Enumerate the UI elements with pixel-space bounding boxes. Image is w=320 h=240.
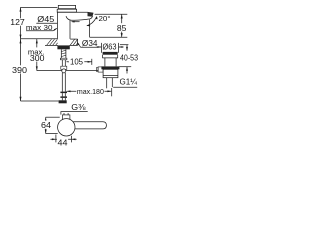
spout underside: [66, 16, 90, 20]
dimension 85 line: [121, 14, 123, 37]
dim 64 line: [45, 117, 47, 133]
dimension max300 line: [36, 39, 38, 71]
dim 64 extension lines: [46, 116, 60, 118]
plan view lever bar: [72, 122, 106, 129]
20deg arc arrowheads: [86, 25, 90, 27]
flow arrow head: [71, 21, 75, 23]
dimension 127 line: [20, 7, 22, 38]
washer: [60, 58, 67, 60]
dim 40-53 top ext: [120, 44, 128, 46]
deck bottom line right: [70, 44, 78, 46]
O34 leader arrow: [77, 42, 79, 46]
faucet handle: [58, 5, 75, 8]
control tube B: [111, 78, 113, 87]
control tube A: [106, 78, 108, 89]
svg-text:40-53: 40-53: [120, 53, 138, 62]
G3/8 underline: [61, 112, 88, 115]
hose connector: [61, 66, 67, 69]
44 arrows: [52, 138, 56, 140]
deck hatching: [47, 39, 78, 45]
deck top line right: [70, 38, 77, 40]
dim max180 line: [67, 90, 112, 92]
text 64: [40, 120, 51, 130]
390 arrows: [20, 39, 22, 43]
text max300: [27, 47, 46, 63]
svg-text:44: 44: [58, 137, 68, 147]
deck-top extension line: [21, 38, 58, 40]
svg-text:Ø34: Ø34: [82, 39, 98, 48]
max300 arrows: [36, 39, 38, 43]
85 arrows: [121, 14, 123, 18]
O63 arrow stems: [96, 46, 101, 48]
svg-text:85: 85: [117, 23, 127, 33]
max30 leader arrow: [54, 28, 58, 31]
flow arrow under spout: [72, 21, 80, 23]
deck bottom line left: [45, 44, 58, 46]
dim 40-53 bottom ext: [119, 66, 132, 68]
text max180: [76, 87, 104, 96]
hose tick 2: [60, 96, 67, 98]
dim 44 line: [50, 138, 76, 140]
spout tip lower edge: [90, 16, 93, 19]
text 390: [11, 65, 28, 75]
svg-text:max.180: max.180: [77, 87, 104, 96]
64 arrows: [45, 117, 47, 121]
spout tip aerator: [88, 12, 94, 16]
svg-text:300: 300: [30, 54, 45, 63]
svg-text:G1¼: G1¼: [120, 78, 138, 87]
svg-text:390: 390: [12, 65, 27, 75]
plan view body circle: [58, 119, 75, 136]
hose tick 1: [60, 92, 67, 94]
text 127: [10, 17, 27, 27]
dim 105 tick right: [91, 59, 93, 65]
spout tip vertical extension: [89, 20, 91, 38]
text O63: [102, 42, 117, 51]
text 85: [116, 23, 128, 33]
right reference line: [90, 36, 128, 38]
top extension line to handle: [21, 6, 58, 8]
faucet collar: [57, 9, 76, 12]
label leader O34: [78, 43, 98, 47]
svg-text:Ø63: Ø63: [103, 42, 118, 51]
label leader max30: [26, 28, 57, 30]
lower hoses: [61, 73, 63, 92]
text 44: [57, 137, 68, 147]
plan view stub: [62, 115, 70, 119]
svg-text:20°: 20°: [99, 14, 111, 23]
bottom extension line at hose end: [21, 100, 59, 102]
svg-text:64: 64: [41, 120, 51, 130]
127 arrows: [20, 7, 22, 11]
control knob top: [103, 52, 118, 55]
text 105: [69, 56, 85, 66]
control left connector: [98, 67, 103, 72]
svg-text:G⅜: G⅜: [71, 102, 86, 112]
hose end nut: [59, 100, 67, 103]
upper hose: [61, 60, 63, 66]
threaded shank: [60, 49, 62, 58]
dimension 390 line: [20, 39, 22, 101]
G1 1/4 underline: [113, 86, 137, 88]
faucet body left edge: [57, 12, 59, 39]
text labels: [10, 14, 139, 147]
max180 arrows: [67, 90, 71, 92]
control cable line: [37, 70, 98, 72]
max180 right extension tick: [111, 88, 113, 96]
spout top edge: [58, 11, 94, 14]
svg-text:105: 105: [70, 56, 83, 66]
O63 arrows: [98, 46, 102, 48]
control knob sides: [103, 55, 118, 58]
arrowheads: [20, 7, 129, 140]
dim 44 extension lines: [55, 135, 57, 143]
spout tip extension line: [95, 13, 128, 15]
label leader O45: [36, 22, 57, 24]
control box: [103, 69, 118, 77]
svg-text:127: 127: [10, 17, 25, 27]
dim 105 line: [67, 61, 92, 63]
cable junction circle: [62, 69, 66, 73]
control locknut: [101, 66, 119, 69]
deck right edge: [77, 39, 79, 45]
20 degree arc: [87, 17, 97, 26]
faucet body right edge: [69, 20, 71, 39]
mounting nut below deck: [57, 45, 69, 49]
O63 extension lines: [101, 43, 103, 53]
105 arrows: [66, 61, 70, 63]
40-53 arrows: [126, 47, 128, 51]
svg-text:max 30: max 30: [26, 23, 53, 32]
control shaft: [104, 58, 106, 67]
